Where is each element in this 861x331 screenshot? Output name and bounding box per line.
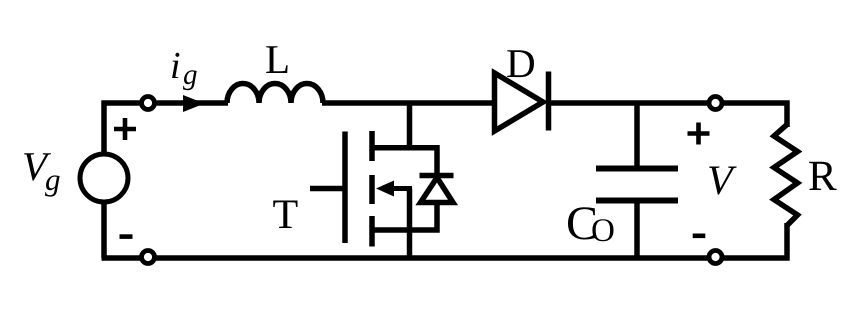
wire left rail upper	[101, 101, 107, 155]
wire source-arrow vertical	[407, 189, 413, 231]
diode D triangle	[495, 73, 544, 131]
node top-left	[142, 97, 155, 110]
label Vg	[24, 153, 51, 180]
label T	[273, 201, 297, 229]
label L	[266, 46, 287, 73]
current arrow ig	[183, 95, 205, 112]
label V output	[709, 167, 737, 195]
label Co	[568, 207, 595, 239]
resistor R zigzag	[774, 125, 798, 226]
body diode triangle	[421, 178, 454, 203]
node bottom-left	[142, 251, 155, 264]
wire left rail lower	[101, 202, 107, 258]
node top-right	[709, 97, 722, 110]
minus sign source	[120, 234, 133, 239]
capacitor top plate	[596, 166, 678, 172]
mosfet gate lead	[310, 186, 343, 192]
wire source vertical to bottom rail	[407, 230, 413, 260]
wire drain vertical	[407, 103, 413, 150]
wire capacitor bottom	[634, 200, 640, 258]
mosfet body arrow	[390, 186, 412, 191]
voltage source Vg circle	[80, 154, 128, 202]
mosfet channel dash middle	[369, 175, 375, 204]
mosfet T gate plate	[342, 132, 348, 244]
minus sign output	[693, 234, 706, 239]
label ig	[172, 53, 179, 78]
node bottom-right	[709, 251, 722, 264]
wire top rail inductor-to-diode	[322, 100, 494, 106]
label R	[809, 162, 836, 190]
mosfet drain lead	[372, 148, 437, 179]
capacitor bottom plate	[596, 198, 678, 204]
mosfet source lead	[372, 202, 437, 230]
wire top rail right (diode cathode to right corner)	[548, 100, 790, 106]
plus sign source	[114, 118, 136, 140]
body diode bar	[420, 173, 454, 179]
inductor L	[227, 84, 323, 103]
mosfet channel dash top	[369, 131, 375, 161]
wire bottom rail	[102, 255, 790, 261]
wire top rail left (source to diode anode)	[102, 100, 229, 106]
plus sign output	[688, 123, 710, 145]
wire right rail upper	[784, 101, 790, 128]
wire capacitor top	[634, 103, 640, 169]
label D	[507, 50, 534, 77]
wire right rail lower	[784, 223, 790, 261]
diode D cathode bar	[546, 72, 552, 131]
mosfet channel dash bottom	[369, 216, 375, 247]
